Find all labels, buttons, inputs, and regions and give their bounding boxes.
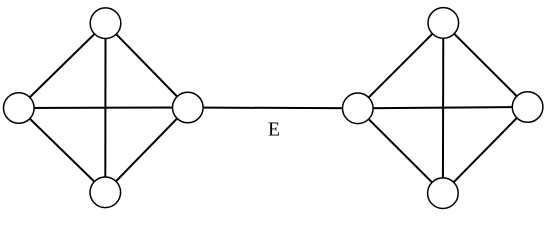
node B (left K4 left vertex) bbox=[3, 93, 34, 124]
edge F-H (right K4 horizontal diagonal) bbox=[358, 107, 528, 108]
node F (right K4 left vertex) bbox=[343, 93, 374, 124]
edge G-I (right K4 vertical diagonal) bbox=[442, 23, 444, 193]
edge E (bridge between the two K4 graphs) bbox=[188, 107, 358, 110]
node G (right K4 top vertex) bbox=[428, 8, 459, 39]
edge H-I (right K4 bottom-right side) bbox=[443, 107, 528, 193]
edge C-D (left K4 bottom-right side) bbox=[105, 108, 188, 193]
edge B-D (left K4 bottom-left side) bbox=[19, 108, 106, 192]
svg-text:E: E bbox=[268, 120, 280, 141]
node H (right K4 right vertex) bbox=[512, 92, 543, 123]
edge F-G (right K4 top-left side) bbox=[358, 23, 444, 108]
node I (right K4 bottom vertex) bbox=[428, 178, 459, 209]
edge A-D (left K4 vertical diagonal) bbox=[104, 23, 106, 192]
node A (left K4 top vertex) bbox=[90, 8, 121, 39]
edge A-C (left K4 top-right side) bbox=[106, 23, 188, 107]
node D (left K4 bottom vertex) bbox=[90, 177, 121, 208]
edge A-B (left K4 top-left side) bbox=[19, 23, 106, 108]
edge F-I (right K4 bottom-left side) bbox=[358, 108, 443, 193]
node C (left K4 right vertex) bbox=[173, 92, 204, 123]
edge G-H (right K4 top-right side) bbox=[443, 23, 527, 107]
edge B-C (left K4 horizontal diagonal) bbox=[19, 107, 188, 110]
